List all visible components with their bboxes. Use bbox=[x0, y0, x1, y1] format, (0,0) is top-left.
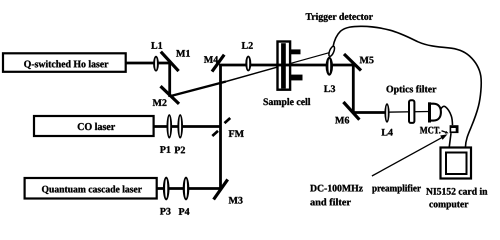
label M5 bbox=[360, 57, 374, 64]
label P4 bbox=[179, 208, 190, 215]
label L4 bbox=[381, 129, 392, 136]
label DC-100MHz preamplifier and filter bbox=[310, 185, 363, 192]
wire: MCT to preamp square bbox=[441, 106, 453, 125]
label M6 bbox=[335, 117, 349, 124]
beam over sample cell bbox=[276, 64, 291, 67]
wire: QCL beam to M3 bbox=[157, 187, 222, 190]
lens L4 bbox=[384, 103, 389, 122]
trigger detector pickoff bbox=[328, 46, 336, 58]
sample cell bottom flange bbox=[291, 75, 303, 81]
mirror M4 bbox=[212, 55, 224, 72]
mirror M2 bbox=[161, 86, 180, 104]
wire: thick diagonal beam M2 toward sample cell bbox=[171, 82, 226, 97]
label FM bbox=[229, 130, 244, 137]
polarizer P2 bbox=[177, 114, 183, 138]
label M1 bbox=[176, 50, 190, 57]
optics filter bbox=[409, 100, 414, 123]
sample cell inner window bar bbox=[281, 43, 286, 88]
mirror M3 bbox=[214, 179, 228, 199]
arrow: DC-100MHz preamplifier pointer bbox=[372, 136, 444, 176]
flip mirror FM (dashed) bbox=[225, 118, 231, 123]
wire: preamp to NI card bbox=[449, 133, 451, 147]
label M3 bbox=[229, 197, 243, 204]
mirror M1 bbox=[161, 52, 179, 71]
mirror M5 bbox=[344, 54, 361, 71]
wire: main beam M4 through sample cell and L3 to M5 bbox=[219, 64, 353, 67]
label L3 bbox=[324, 85, 335, 92]
label MCT bbox=[420, 127, 440, 134]
wire: thin beam L4 to optics filter to MCT bbox=[385, 111, 430, 114]
cable: trigger detector to NI card bbox=[333, 26, 481, 147]
lens L2 bbox=[245, 56, 251, 72]
lens L1 bbox=[153, 56, 159, 72]
wire: CO laser beam to FM bbox=[154, 125, 222, 128]
polarizer P1 bbox=[167, 114, 173, 138]
wire: Ho laser beam to M1 bbox=[126, 62, 171, 65]
label trigger detector bbox=[306, 13, 373, 22]
label Optics filter bbox=[386, 85, 436, 94]
wire: beam M6 to L4 bbox=[352, 111, 385, 114]
NI5152 card box inner bbox=[446, 153, 467, 175]
wire: thin diagonal beam to trigger detector bbox=[277, 52, 331, 67]
wire: vertical beam M3 through FM to M4 bbox=[219, 64, 222, 190]
MCT detector D-shape bbox=[428, 102, 431, 122]
label L2 bbox=[242, 42, 253, 49]
label M4 bbox=[204, 56, 218, 63]
polarizer P3 bbox=[163, 177, 170, 201]
preamp square bbox=[450, 125, 459, 133]
label P2 bbox=[174, 147, 185, 154]
wire: vertical beam M5 to M6 bbox=[352, 64, 355, 113]
label P3 bbox=[160, 208, 171, 215]
label Sample cell bbox=[264, 98, 311, 107]
label M2 bbox=[153, 99, 167, 106]
label NI5152 card in computer bbox=[426, 188, 487, 195]
sample cell body bbox=[278, 42, 291, 90]
mirror M6 bbox=[343, 102, 359, 120]
laser box: CO laser bbox=[34, 116, 154, 136]
NI5152 card box outer bbox=[441, 148, 472, 179]
sample cell top flange bbox=[291, 49, 301, 54]
polarizer P4 bbox=[183, 177, 190, 201]
label P1 bbox=[160, 146, 170, 153]
laser box: Quantuam cascade laser bbox=[25, 178, 157, 199]
label L1 bbox=[151, 42, 162, 49]
wire: medium diagonal beam toward sample cell bbox=[226, 67, 277, 81]
laser box: Q-switched Ho laser bbox=[3, 53, 126, 72]
tick from MCT label to preamp bbox=[442, 131, 447, 133]
lens L3 bbox=[326, 57, 333, 76]
wire: vertical beam M1 to M2 bbox=[168, 62, 171, 97]
